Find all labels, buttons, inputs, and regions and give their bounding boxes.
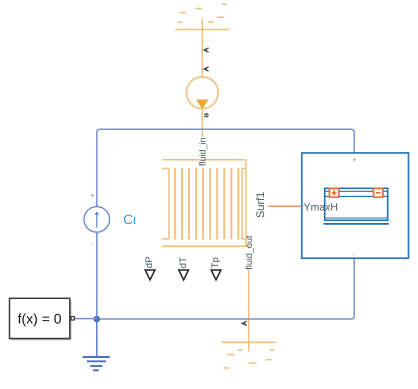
svg-text:+: +	[353, 157, 357, 164]
wire (junction down to ground G1)	[96, 319, 98, 357]
port label A (reservoir RES1)	[204, 48, 209, 52]
svg-text:f(x) = 0: f(x) = 0	[18, 311, 62, 327]
battery terminal +	[329, 188, 338, 197]
wire (reservoir RES1 to pump P1)	[201, 19, 203, 77]
port label A (reservoir RES2)	[242, 321, 247, 325]
svg-text:fluid_out: fluid_out	[244, 235, 254, 270]
solver config block f(x)=0	[10, 298, 75, 340]
wire (source I1 bottom to junction)	[96, 232, 98, 319]
wire (solver config to junction)	[74, 318, 97, 320]
wire (pump P1 to radiator fluid_in)	[201, 109, 203, 160]
output triangle dP	[145, 270, 155, 280]
reservoir RES1 (atmosphere symbol, top)	[176, 4, 229, 29]
svg-text:Cι: Cι	[123, 212, 136, 227]
svg-text:+: +	[90, 193, 94, 200]
port label B (pump P1)	[204, 113, 208, 117]
svg-text:fluid_in: fluid_in	[198, 137, 208, 166]
svg-text:Surf1: Surf1	[255, 192, 267, 218]
current source I1	[84, 207, 110, 233]
output triangle Tp	[211, 270, 221, 280]
svg-text:dP: dP	[144, 257, 155, 269]
port label fluid_out (radiator)	[243, 235, 254, 270]
svg-text:-: -	[353, 251, 355, 258]
ground G1	[83, 357, 110, 370]
wire (radiator Surf1 to subsystem, salmon)	[268, 205, 302, 207]
svg-text:YmaxH: YmaxH	[304, 201, 338, 213]
wire (top electrical bus: source I1 top to subsystem top)	[97, 129, 354, 206]
radiator HX1	[162, 160, 246, 246]
wire (radiator fluid_out down to reservoir RES2)	[246, 246, 249, 351]
reservoir RES2 (atmosphere symbol, bottom)	[222, 342, 275, 368]
battery icon (inside subsystem)	[323, 188, 389, 224]
port label A (pump P1)	[204, 67, 209, 71]
battery terminal -	[374, 188, 383, 197]
svg-text:-: -	[91, 241, 93, 248]
node junction (solver/source/ground)	[94, 316, 101, 323]
svg-text:Tp: Tp	[210, 257, 221, 268]
pump P1 (circle with down triangle)	[186, 77, 218, 109]
svg-text:dT: dT	[178, 257, 189, 268]
subsystem battery box	[302, 153, 409, 258]
output triangle dT	[179, 270, 189, 280]
port label fluid_in (radiator)	[197, 137, 208, 167]
wire (bottom electrical bus: junction to subsystem bottom)	[97, 258, 354, 319]
